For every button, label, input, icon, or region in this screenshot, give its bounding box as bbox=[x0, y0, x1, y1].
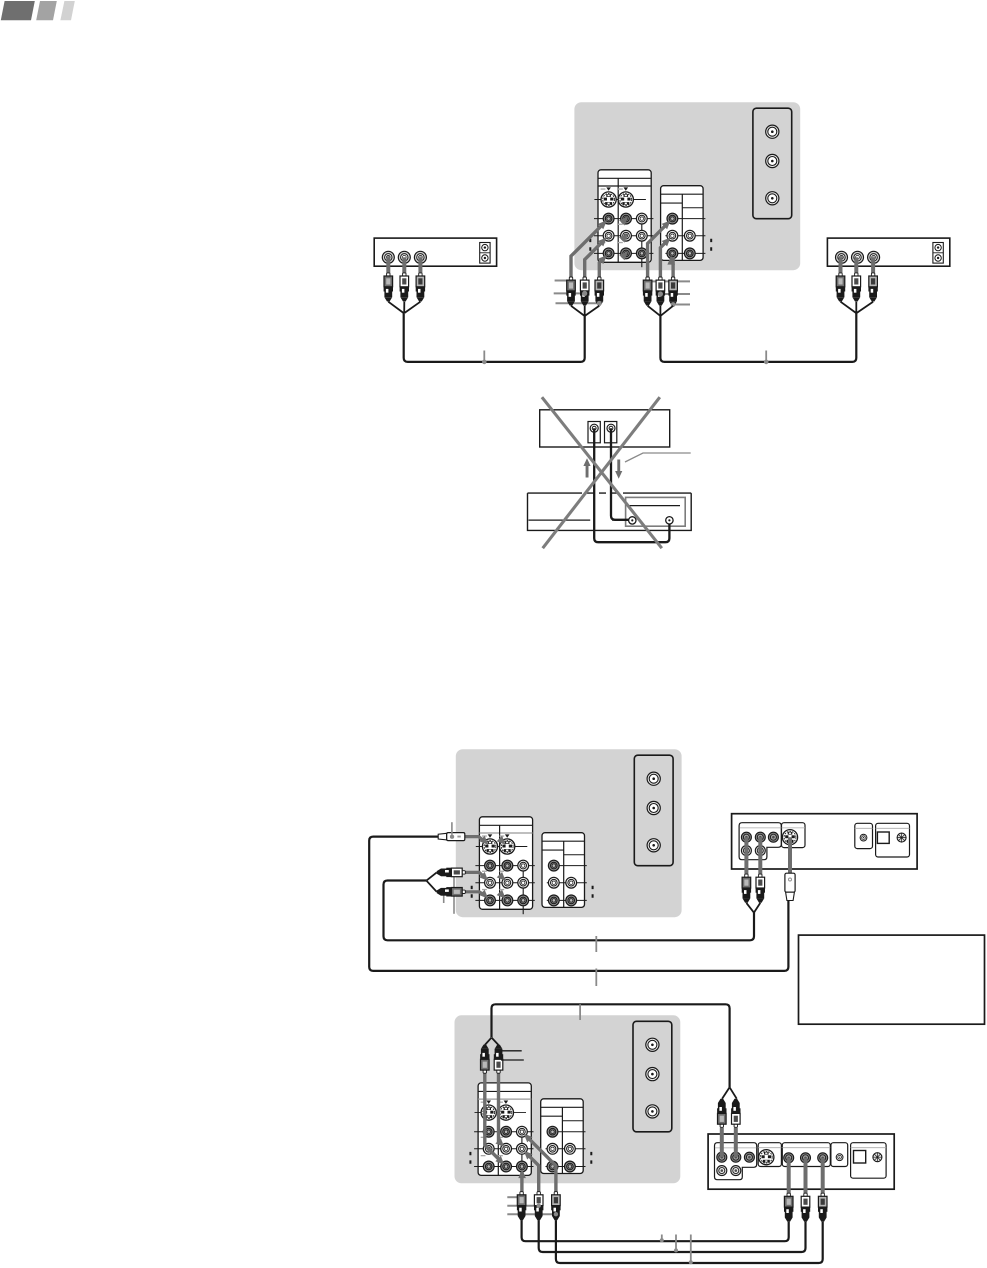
wrong-connection example: upper device bbox=[540, 410, 670, 447]
right group cable fan bbox=[648, 306, 674, 316]
S-video jack VIDEO 2 bbox=[500, 839, 515, 854]
panel1 RCA jack col1 row2 bbox=[485, 877, 496, 888]
device AV jacks top row bbox=[717, 1152, 727, 1162]
device AV jacks top row bbox=[741, 832, 751, 842]
panel1 RCA jack col1 row1 bbox=[485, 860, 496, 871]
device component video panel bbox=[782, 1143, 830, 1167]
device S-video out jack bbox=[782, 830, 797, 845]
antenna F connector CABLE bbox=[647, 801, 660, 814]
panel1 column divider bbox=[499, 825, 501, 909]
panel2 RCA jack col2 row2 bbox=[565, 1143, 576, 1154]
A/V plug red (right group) bbox=[668, 277, 677, 306]
S-video plug at TV side bbox=[438, 833, 465, 841]
panel1 RCA jack col1 row3 bbox=[603, 248, 614, 259]
header parallelogram light bbox=[60, 1, 74, 20]
A/V plug yellow (left group) bbox=[566, 277, 575, 306]
panel2 edge dashes bbox=[710, 239, 712, 251]
video input panel 1 (VIDEO 1 / VIDEO 2 jacks) bbox=[479, 817, 532, 910]
device AV jack panel (stepped) bbox=[739, 823, 781, 860]
panel2 divider bbox=[561, 1107, 563, 1173]
ghost arrowheads on VIDEO2 jacks bbox=[497, 836, 506, 845]
S-video row line bbox=[476, 846, 528, 848]
antenna F connector CABLE bbox=[766, 154, 779, 167]
panel1 RCA jack col2 row2 bbox=[502, 877, 513, 888]
panel2 RCA jack col1 row1 bbox=[667, 213, 678, 224]
panel1 RCA jack col1 row3 bbox=[485, 895, 496, 906]
cable marker right bbox=[765, 351, 767, 361]
panel2 RCA jack col1 row2 bbox=[547, 1143, 558, 1154]
tiny jack labels bbox=[601, 188, 623, 243]
audio cable marker bbox=[595, 936, 597, 952]
device S-video out jack bbox=[759, 1150, 774, 1165]
panel1 RCA jack col2 row2 bbox=[501, 1143, 512, 1154]
panel1 second header line bbox=[478, 1098, 531, 1100]
panel1 column divider bbox=[617, 178, 619, 262]
RCA plug leader verticals bbox=[453, 870, 455, 914]
panel2 RCA jack col2 row2 bbox=[684, 230, 695, 241]
DVD top jack stems bbox=[720, 1128, 724, 1158]
panel2 RCA jack col1 row3 bbox=[547, 1161, 558, 1172]
TV rear panel (gray back of television) bbox=[455, 1015, 681, 1183]
panel1 output column link line bbox=[521, 1132, 523, 1181]
triangle marker VIDEO 2 bbox=[624, 187, 629, 190]
cable shaft into VIDEO1 audio-L jack bbox=[585, 241, 604, 278]
panel1 RCA jack col3 row2 bbox=[517, 1143, 528, 1154]
video input panel 2 (VIDEO 3 jacks) bbox=[541, 1099, 584, 1174]
panel2 divider bbox=[681, 194, 683, 260]
audio cable loop from monitor-out to DVD bbox=[492, 1004, 730, 1087]
panel1 RCA jack col1 row1 bbox=[483, 1126, 494, 1137]
top plug labels leader lines bbox=[501, 1050, 522, 1052]
down arrow (signal loop) bbox=[615, 460, 622, 479]
panel2 row lines bbox=[672, 218, 705, 220]
device RF out (hatched) bbox=[897, 833, 906, 842]
video input panel 2 (VIDEO 3 jacks) bbox=[542, 833, 585, 908]
audio-R shaft into VIDEO1 jack bbox=[465, 892, 485, 896]
panel1 RCA jack col2 row1 bbox=[502, 860, 513, 871]
cable shaft into VIDEO1 video-in jack bbox=[571, 224, 604, 278]
right VCR cable fan bbox=[841, 302, 874, 313]
DVD audio plug white bbox=[742, 874, 751, 903]
panel2 RCA jack col1 row1 bbox=[548, 860, 559, 871]
callout leader line bbox=[625, 453, 691, 462]
triangle marker VIDEO 1 bbox=[486, 1101, 491, 1104]
device digital out port (square) bbox=[877, 832, 889, 843]
monitor-out shaft video bbox=[527, 1137, 556, 1192]
S-video row line bbox=[475, 1112, 527, 1114]
TV rear panel (gray back of television) bbox=[456, 749, 682, 917]
panel1 edge dashes bbox=[589, 239, 591, 251]
lower device shelf line bbox=[529, 519, 629, 521]
right VCR plug red bbox=[868, 273, 877, 302]
panel1 jack row line 3 bbox=[475, 899, 534, 901]
lower device slot line bbox=[628, 505, 680, 507]
DVD-side top cable fan bbox=[722, 1087, 737, 1098]
A/V plug white (left group) bbox=[580, 277, 589, 306]
device S-video panel bbox=[758, 1143, 781, 1167]
TV rear panel (gray back of television) bbox=[574, 102, 800, 270]
device digital out port (square) bbox=[854, 1151, 866, 1164]
cable shaft into VIDEO3 video-in jack bbox=[648, 224, 668, 278]
antenna F connector AUX bbox=[766, 192, 779, 205]
antenna F connector VHF/UHF bbox=[766, 125, 779, 138]
VCR rear chassis bbox=[374, 238, 496, 266]
audio shaft into VIDEO2 R jack bbox=[485, 1073, 501, 1161]
upper device antenna terminal right bbox=[605, 422, 617, 443]
panel1 jack row line 1 bbox=[594, 218, 653, 220]
triangle marker VIDEO 1 bbox=[488, 834, 493, 837]
audio shaft into VIDEO2 L jack bbox=[499, 1073, 502, 1144]
note box bbox=[799, 935, 985, 1024]
S-video jack VIDEO 2 bbox=[618, 192, 633, 207]
S-video shaft into VIDEO1 S-video jack bbox=[465, 837, 485, 842]
panel1 RCA jack col3 row2 bbox=[636, 230, 647, 241]
S-video cable marker bbox=[595, 969, 597, 987]
audio plug red at TV side bbox=[437, 887, 466, 896]
bottom plug leader lines bbox=[507, 1196, 519, 1198]
antenna F connector AUX bbox=[647, 839, 660, 852]
panel1 jack row line 1 bbox=[474, 1131, 533, 1133]
S-video cable loop TV to DVD bbox=[369, 837, 788, 971]
device RF out (hatched) bbox=[873, 1153, 882, 1162]
S-video jack VIDEO 2 bbox=[498, 1105, 513, 1120]
panel1 RCA jack col2 row3 bbox=[501, 1161, 512, 1172]
header parallelogram medium bbox=[36, 1, 57, 20]
panel1 RCA jack col2 row1 bbox=[501, 1126, 512, 1137]
S-video jack VIDEO 1 bbox=[601, 192, 616, 207]
loop cable marker bbox=[579, 1004, 581, 1020]
monitor-out plug video bbox=[551, 1192, 560, 1221]
panel1 edge dashes bbox=[471, 886, 473, 898]
VCR output jack 3 bbox=[414, 251, 426, 263]
triangle marker VIDEO 2 bbox=[505, 834, 510, 837]
bottom cable markers bbox=[661, 1235, 663, 1240]
cable marker left bbox=[483, 351, 485, 361]
panel1 RCA jack col3 row3 bbox=[517, 1161, 528, 1172]
leader dots right group bbox=[658, 291, 663, 296]
panel1 RCA jack col3 row3 bbox=[518, 895, 529, 906]
audio cable loop TV to DVD bbox=[384, 881, 755, 941]
prohibition X stroke 2 bbox=[543, 397, 660, 548]
DVD player rear chassis bbox=[732, 814, 918, 869]
panel1 RCA jack col3 row2 bbox=[518, 877, 529, 888]
panel1 header line bbox=[479, 824, 532, 826]
antenna input panel bbox=[753, 108, 792, 219]
panel1 column divider bbox=[497, 1091, 499, 1175]
S-video row line bbox=[594, 199, 646, 201]
leader dots left group bbox=[582, 291, 587, 296]
panel2 RCA jack col1 row3 bbox=[548, 895, 559, 906]
left VCR jack stems bbox=[386, 257, 390, 273]
panel2 edge dashes bbox=[592, 886, 594, 898]
panel1 RCA jack col1 row2 bbox=[603, 230, 614, 241]
panel1 second header line bbox=[598, 185, 651, 187]
audio-L shaft into VIDEO1 jack bbox=[465, 872, 485, 877]
panel2 right cell line bbox=[682, 207, 703, 209]
tiny jack labels bbox=[482, 835, 504, 890]
loop cable 1 (to lower right jack) bbox=[594, 428, 669, 542]
video input panel 1 (VIDEO 1 / VIDEO 2 jacks) bbox=[478, 1083, 531, 1176]
cable shaft into VIDEO3 audio-L jack bbox=[660, 241, 667, 278]
A/V plug white (right group) bbox=[656, 277, 665, 306]
audio cable fan at TV side bbox=[427, 872, 437, 891]
left VCR cable fan bbox=[388, 302, 420, 313]
device AV jacks bottom row bbox=[717, 1166, 727, 1176]
antenna F connector CABLE bbox=[646, 1068, 659, 1081]
panel2 header line bbox=[661, 193, 704, 195]
component plug blue bbox=[801, 1193, 810, 1222]
device AV jack panel (stepped) bbox=[715, 1143, 757, 1180]
panel1 RCA jack col3 row1 bbox=[636, 213, 647, 224]
panel2 row lines bbox=[553, 1131, 586, 1133]
device S-video panel bbox=[782, 823, 806, 848]
S-video jack VIDEO 1 bbox=[481, 1105, 496, 1120]
up arrow (signal loop) bbox=[583, 458, 590, 477]
left group cable fan bbox=[571, 306, 599, 316]
panel2 RCA jack col1 row2 bbox=[667, 230, 678, 241]
panel2 right cell line bbox=[564, 854, 585, 856]
panel1 RCA jack col3 row3 bbox=[636, 248, 647, 259]
audio plug white top (into VIDEO2) bbox=[480, 1045, 489, 1074]
audio cable L to DVD bbox=[539, 1220, 806, 1252]
panel1 output column link line bbox=[522, 866, 524, 915]
upper device antenna terminal left bbox=[588, 422, 600, 443]
cable shaft into VIDEO1 audio-R jack bbox=[599, 258, 603, 277]
component video jacks Y/Pb/Pr bbox=[784, 1153, 794, 1163]
lower device top edge (partly dashed) bbox=[528, 492, 576, 494]
VCR output jack 2 bbox=[852, 251, 864, 263]
panel1 jack row line 2 bbox=[474, 1148, 533, 1150]
right VCR plug yellow bbox=[836, 273, 845, 302]
monitor-out shaft R audio bbox=[520, 1172, 523, 1192]
right VCR jack stems bbox=[839, 257, 843, 273]
lower device jack left bbox=[629, 517, 636, 524]
VCR RF connector block bbox=[933, 243, 943, 264]
left VCR plug red bbox=[416, 273, 425, 302]
device AV jacks bottom row bbox=[741, 846, 751, 856]
panel1 jack row line 2 bbox=[594, 235, 653, 237]
panel2 RCA jack col2 row2 bbox=[566, 877, 577, 888]
antenna F connector VHF/UHF bbox=[647, 772, 660, 785]
panel2 RCA jack col2 row3 bbox=[565, 1161, 576, 1172]
DVD audio cable fan bbox=[746, 903, 760, 913]
A/V cable from left VCR bbox=[404, 313, 585, 362]
lower device inset panel bbox=[626, 497, 686, 526]
device power panel bbox=[876, 823, 910, 857]
panel1 second header line bbox=[479, 832, 532, 834]
video input panel 2 (VIDEO 3 jacks) bbox=[661, 186, 704, 261]
S-video jack VIDEO 1 bbox=[482, 839, 497, 854]
component jack stems bbox=[787, 1158, 791, 1194]
cable shaft into VIDEO3 audio-R jack bbox=[671, 257, 674, 277]
DVD jack stems bbox=[744, 837, 748, 875]
antenna F connector AUX bbox=[646, 1105, 659, 1118]
antenna input panel bbox=[633, 1021, 672, 1132]
panel2 RCA jack col2 row3 bbox=[566, 895, 577, 906]
triangle marker VIDEO 1 bbox=[606, 187, 611, 190]
panel2 divider bbox=[563, 841, 565, 907]
video input panel 1 (VIDEO 1 / VIDEO 2 jacks) bbox=[598, 170, 651, 262]
DVD audio plug red bbox=[756, 874, 765, 903]
panel1 RCA jack col2 row2 bbox=[621, 230, 632, 241]
lower device jack right bbox=[666, 517, 673, 524]
panel1 RCA jack col3 row1 bbox=[517, 1126, 528, 1137]
bottom leader dots bbox=[537, 1204, 541, 1208]
panel2 left band line bbox=[541, 1115, 563, 1117]
panel1 jack row line 2 bbox=[475, 882, 534, 884]
panel1 jack row line 3 bbox=[474, 1166, 533, 1168]
device antenna in jack bbox=[860, 834, 867, 841]
panel2 edge dashes bbox=[590, 1152, 592, 1164]
monitor-out shaft L audio bbox=[527, 1154, 539, 1192]
audio cable R to DVD bbox=[522, 1220, 789, 1241]
left VCR plug yellow bbox=[384, 273, 393, 302]
panel2 RCA jack col1 row1 bbox=[547, 1126, 558, 1137]
panel2 left band line bbox=[661, 202, 683, 204]
A/V plug yellow (right group) bbox=[643, 277, 652, 306]
panel1 RCA jack col2 row1 bbox=[621, 213, 632, 224]
DVD player rear chassis (with component video) bbox=[708, 1134, 894, 1189]
VCR output jack 1 bbox=[382, 251, 394, 263]
panel2 header line bbox=[541, 1106, 584, 1108]
VCR rear chassis bbox=[827, 238, 949, 266]
audio plug white at TV side bbox=[437, 868, 466, 877]
panel1 RCA jack col2 row3 bbox=[502, 895, 513, 906]
video cable to DVD bbox=[556, 1220, 823, 1263]
panel1 jack row line 1 bbox=[475, 865, 534, 867]
DVD audio plug from above R bbox=[731, 1099, 740, 1128]
antenna input panel bbox=[634, 755, 673, 866]
monitor-out plug R bbox=[517, 1192, 526, 1221]
VCR output jack 3 bbox=[868, 251, 880, 263]
panel2 RCA jack col1 row3 bbox=[667, 248, 678, 259]
right VCR plug white bbox=[852, 273, 861, 302]
S-video plug leader bbox=[451, 822, 453, 835]
device power panel bbox=[851, 1143, 887, 1179]
plug label leader lines left group bbox=[555, 280, 567, 282]
panel1 edge dashes bbox=[469, 1152, 471, 1164]
panel1 header line bbox=[478, 1090, 531, 1092]
wrong-connection example: lower device bbox=[528, 493, 692, 530]
panel1 RCA jack col3 row1 bbox=[518, 860, 529, 871]
header parallelogram dark bbox=[1, 1, 35, 20]
plug label leader lines right group bbox=[649, 280, 690, 282]
VCR output jack 2 bbox=[398, 251, 410, 263]
panel1 header line bbox=[598, 177, 651, 179]
component plug green bbox=[784, 1193, 793, 1222]
ghost arrowheads on VIDEO2 jacks bbox=[619, 217, 628, 226]
A/V plug red (left group) bbox=[595, 277, 604, 306]
VCR output jack 1 bbox=[836, 251, 848, 263]
DVD S-video plug bbox=[785, 873, 795, 900]
antenna F connector VHF/UHF bbox=[646, 1038, 659, 1051]
panel2 left band line bbox=[542, 849, 564, 851]
triangle marker VIDEO 2 bbox=[504, 1101, 509, 1104]
panel2 right cell line bbox=[562, 1120, 583, 1122]
loop cable 2 (to lower left jack) bbox=[611, 428, 629, 520]
DVD audio plug from above L bbox=[717, 1099, 726, 1128]
panel2 row lines bbox=[554, 865, 587, 867]
device antenna in jack bbox=[836, 1154, 843, 1161]
device antenna panel bbox=[855, 823, 873, 848]
panel1 RCA jack col2 row3 bbox=[621, 248, 632, 259]
VCR RF connector block bbox=[480, 243, 490, 264]
panel1 RCA jack col1 row2 bbox=[483, 1143, 494, 1154]
device antenna panel bbox=[831, 1143, 848, 1167]
panel1 output column link line bbox=[641, 219, 643, 268]
panel1 jack row line 3 bbox=[594, 252, 653, 254]
top plug cable fan bbox=[485, 1038, 499, 1045]
monitor-out plug L bbox=[534, 1192, 543, 1221]
panel2 RCA jack col1 row2 bbox=[548, 877, 559, 888]
audio plug red top (into VIDEO2) bbox=[494, 1045, 503, 1074]
panel1 RCA jack col1 row1 bbox=[603, 213, 614, 224]
panel2 RCA jack col2 row3 bbox=[684, 248, 695, 259]
panel2 header line bbox=[542, 840, 585, 842]
left VCR plug white bbox=[400, 273, 409, 302]
prohibition X stroke 1 bbox=[542, 397, 662, 548]
component plug red bbox=[818, 1193, 827, 1222]
A/V cable to right VCR bbox=[660, 313, 856, 362]
panel1 RCA jack col1 row3 bbox=[483, 1161, 494, 1172]
tiny jack labels bbox=[481, 1102, 503, 1157]
